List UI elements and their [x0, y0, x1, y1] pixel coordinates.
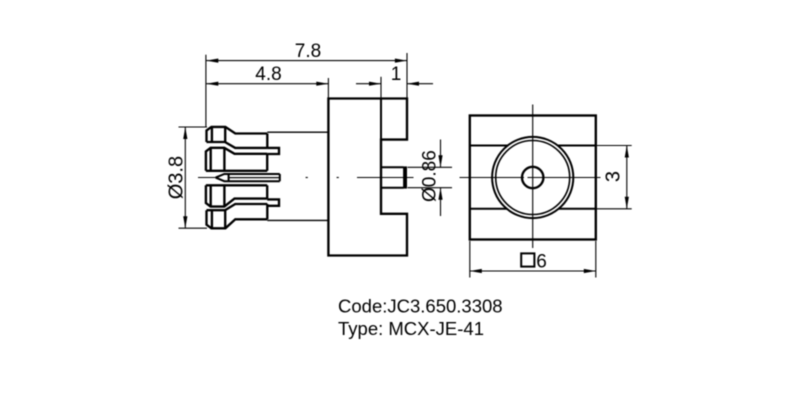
lower tab [267, 199, 279, 205]
body internal edge [380, 99, 382, 140]
shell band 2 (upper middle) outline [206, 148, 267, 171]
main body with right notch [328, 99, 407, 256]
svg-text:7.8: 7.8 [295, 41, 321, 62]
upper tab [267, 148, 279, 154]
shell finger 4 (bottom) outline [207, 204, 268, 228]
PCB center pin in notch [381, 167, 403, 187]
svg-text:Ø0.86: Ø0.86 [420, 150, 441, 202]
shell finger 1 (top) outline [207, 127, 268, 148]
svg-text:1: 1 [391, 64, 402, 85]
svg-text:Code:JC3.650.3308: Code:JC3.650.3308 [338, 296, 503, 317]
svg-text:Type: MCX-JE-41: Type: MCX-JE-41 [338, 318, 484, 339]
front view notch lines [470, 146, 596, 209]
front view vertical centerline [532, 105, 534, 249]
front view center pin circle [522, 167, 543, 188]
svg-text:4.8: 4.8 [255, 64, 281, 85]
front view inner ring [496, 141, 570, 215]
dimension 3 [596, 146, 632, 209]
rear barrel top line [267, 131, 328, 133]
dimension 7.8 [206, 53, 407, 127]
rear barrel bottom line [267, 219, 328, 221]
dimension diameter 0.86 [408, 140, 453, 217]
dimension diameter 3.8 [179, 127, 208, 228]
front view square body [470, 116, 596, 240]
front view outer circle [492, 137, 573, 218]
svg-text:Ø3.8: Ø3.8 [166, 156, 188, 199]
dimension square 6 [470, 241, 596, 278]
front view horizontal centerline [460, 177, 601, 179]
side view horizontal centerline [198, 177, 414, 179]
shell band 3 (lower middle) outline [206, 185, 267, 206]
dimension 4.8 [206, 78, 328, 98]
dimension 1 [356, 77, 433, 98]
svg-text:3: 3 [603, 171, 625, 182]
center socket contact (pin with V notch) [216, 174, 280, 181]
svg-text:6: 6 [536, 251, 547, 272]
